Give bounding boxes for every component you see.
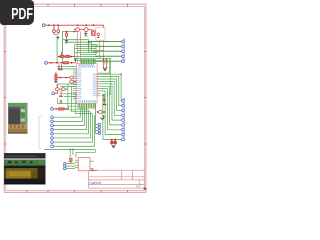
wire green verticals descending left of U1: [68, 84, 93, 114]
capacitor C6: [111, 139, 113, 146]
pin P2: [45, 61, 48, 64]
U1 pin name text right column: [92, 74, 96, 96]
frame outer border: [4, 4, 146, 192]
nested wires U1 right to SV2: [100, 74, 121, 139]
U1 header cluster blue: [78, 64, 95, 67]
diode D2 circle: [97, 104, 107, 114]
wire green riser group above R5: [58, 98, 78, 104]
node red junction mid: [88, 41, 90, 47]
resistor R3 on pin P2 wire: [47, 62, 75, 64]
U1 left pins: [73, 69, 77, 98]
wire long green to U2: [44, 148, 95, 150]
pin P4 top of left connector: [51, 108, 54, 111]
transistor Q1 circles: [70, 76, 74, 79]
wires to right-top connector: [89, 42, 122, 62]
frame inner border: [6, 6, 144, 190]
wire red rails from crystal down to U1: [77, 32, 103, 64]
U1 bottom pin dots red: [77, 108, 95, 109]
ground GND4: [55, 80, 58, 83]
wire red rail to ICSP: [103, 94, 105, 104]
U1 pin name text left column: [77, 69, 82, 99]
U1 right pin tips red: [97, 74, 98, 96]
part inside annotation: LED1: [97, 33, 99, 37]
wires to ICSP pins: [96, 124, 98, 133]
wire red row y77.4: [57, 77, 70, 79]
crystal circle Y1a: [76, 28, 80, 32]
IC U2 body: [78, 158, 90, 171]
wire green region box: [63, 32, 79, 63]
resistor R1 vertical with ground: [65, 31, 68, 43]
ground GND3 pair below reset: [58, 65, 63, 70]
ground GND7: [112, 145, 115, 147]
capacitor C4: [103, 59, 105, 69]
wire green pair mid-top: [63, 40, 92, 52]
capacitor C5: [106, 59, 108, 69]
wire green horizontals lower-left: [57, 66, 77, 69]
resistor R2b: [58, 55, 75, 57]
pin P1: [42, 24, 45, 27]
wire green stub from R5: [69, 106, 78, 109]
U2 right pins: [90, 161, 94, 169]
capacitor C1: [53, 25, 56, 34]
wire top supply bus: [45, 25, 103, 28]
green mesh between U1 top and crystal: [75, 45, 111, 62]
nested wires SV3 to U1 bottom: [53, 107, 94, 146]
wire green bus vertical x110.6: [110, 59, 112, 95]
wire red stub with dot: [75, 58, 77, 62]
U1 left pin tips red: [75, 69, 78, 99]
U2 left pins: [75, 160, 79, 168]
capacitor C3 small: [59, 91, 63, 97]
SV2 pin number labels: [124, 98, 126, 138]
ground GND1: [54, 34, 59, 38]
wire red vertical: [61, 52, 63, 57]
photo: SD card module photograph: [8, 103, 28, 134]
resonator X1 box with circle: [92, 30, 96, 35]
U1 footer cluster blue: [78, 100, 96, 102]
node dots on right wires: [102, 74, 122, 96]
SV1 pin number labels: [124, 39, 126, 60]
connector SV3 left pins: [51, 116, 54, 148]
frame annotation box pink: [96, 28, 105, 41]
wire red from U2 to title block: [90, 170, 97, 172]
ground GND6: [104, 68, 107, 70]
ground GND5: [60, 101, 62, 102]
node dots on long wire: [69, 149, 73, 151]
PDF badge: [0, 0, 34, 25]
frame tick marks top: [48, 4, 128, 7]
wire greens down to U2: [70, 149, 95, 157]
U1 bottom pins green: [78, 103, 95, 107]
connector SV1 right-top pins: [122, 40, 125, 63]
svg-text:PDF: PDF: [11, 5, 33, 23]
wire green rows y84.7 y87: [57, 84, 77, 86]
U1 top power pins green: [82, 59, 95, 64]
inductor dark hook: [101, 116, 104, 120]
wire red from P3: [55, 85, 68, 94]
pin P3: [52, 92, 55, 95]
wire green rows y93.8 y96.6: [61, 94, 77, 97]
connector SV2 right-bottom pins: [122, 99, 125, 140]
frame tick marks bottom: [27, 190, 128, 192]
resistor R5 on P4 wire: [53, 108, 68, 110]
wire green stub right of caps: [108, 59, 110, 74]
title block TB1: [89, 170, 145, 188]
ground GND2: [84, 32, 87, 37]
IC U1 body: [76, 64, 97, 104]
frame tick marks left: [4, 52, 6, 145]
crystal circle Y1b: [84, 28, 88, 32]
diode D1: [70, 158, 72, 163]
bus bracket left: [39, 116, 42, 148]
wire green bus x95.6 down: [95, 103, 97, 133]
capacitor C2: [57, 25, 60, 34]
wire green row y73.2: [98, 72, 111, 74]
wire crystal links: [74, 29, 92, 31]
connector JP2 pins at U2: [64, 162, 66, 169]
title block corner mark: [144, 188, 147, 190]
svg-text:CadSoft: CadSoft: [89, 181, 101, 185]
resistor R4 vertical top-left of U1: [55, 72, 57, 80]
varistor circle A: [55, 88, 59, 91]
resistor R2a: [58, 55, 64, 57]
photo: display board photograph: [4, 153, 45, 184]
capacitor C7: [114, 139, 116, 146]
frame tick marks right: [144, 52, 146, 145]
wire green vertical reset: [56, 37, 58, 63]
U1 right pins: [97, 74, 100, 96]
wires JP2 to U2: [66, 164, 75, 169]
connector JP1 mid pins: [98, 123, 100, 134]
varistor circle B: [61, 88, 65, 91]
node junction dots on top bus: [48, 24, 94, 26]
